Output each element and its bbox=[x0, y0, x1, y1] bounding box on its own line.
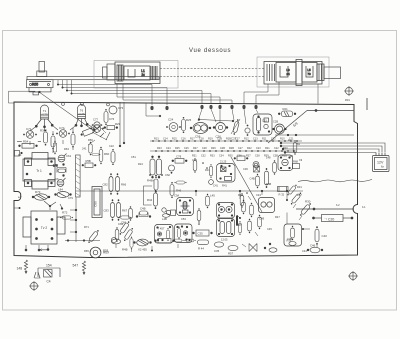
svg-text:C40: C40 bbox=[322, 234, 328, 238]
resistor pills bottom bbox=[197, 192, 248, 225]
top dots F bbox=[149, 173, 170, 177]
transistor T1 bbox=[35, 105, 53, 128]
svg-text:R4B: R4B bbox=[122, 248, 128, 252]
svg-text:R37: R37 bbox=[246, 155, 251, 158]
svg-text:R54: R54 bbox=[23, 140, 29, 144]
antenna bracket outline bbox=[94, 61, 178, 89]
svg-text:R73: R73 bbox=[35, 190, 41, 194]
capacitor C61 bbox=[58, 154, 71, 162]
capacitor C35a bbox=[193, 230, 213, 236]
oscillator coil X2 bbox=[134, 239, 152, 251]
svg-text:b.2: b.2 bbox=[336, 203, 340, 207]
capacitor C77 bbox=[169, 165, 175, 174]
battery connector 12V bbox=[373, 153, 390, 172]
capacitor C30 tall bbox=[150, 156, 155, 178]
svg-text:C4B: C4B bbox=[140, 207, 146, 211]
resistor R67 bbox=[117, 199, 128, 221]
svg-text:R23: R23 bbox=[157, 147, 162, 150]
svg-text:L75: L75 bbox=[53, 164, 58, 168]
svg-text:C36: C36 bbox=[243, 167, 248, 171]
svg-text:R60: R60 bbox=[104, 152, 110, 156]
trimmer C68 bbox=[111, 237, 116, 242]
capacitor C84 bbox=[119, 216, 132, 225]
transformer Tr2 bbox=[23, 211, 65, 244]
capacitor C53b bbox=[171, 210, 176, 216]
svg-text:C35: C35 bbox=[214, 249, 220, 253]
resistor R65 bbox=[115, 227, 119, 241]
svg-text:C3B: C3B bbox=[287, 237, 292, 241]
resistor R73 bbox=[32, 190, 50, 200]
svg-text:Tr 1: Tr 1 bbox=[36, 169, 42, 173]
svg-text:R01: R01 bbox=[345, 98, 350, 102]
bottom edge parts bbox=[103, 237, 296, 256]
resistor R43 bbox=[51, 134, 55, 150]
bracket pins and wires to board bbox=[57, 80, 211, 105]
svg-text:C33: C33 bbox=[192, 158, 197, 162]
wire X bbox=[88, 128, 107, 145]
module 2 bbox=[175, 224, 193, 243]
svg-text:C20: C20 bbox=[328, 217, 334, 221]
resistor R25 bbox=[182, 117, 192, 133]
svg-text:C4B: C4B bbox=[250, 177, 255, 181]
svg-text:C46: C46 bbox=[310, 244, 316, 248]
coil can C2B bbox=[273, 120, 287, 135]
svg-text:C80: C80 bbox=[94, 201, 98, 207]
svg-text:Vue dessous: Vue dessous bbox=[189, 48, 231, 54]
capacitor C78 bbox=[172, 155, 187, 164]
svg-text:C61: C61 bbox=[66, 154, 72, 158]
svg-text:C23: C23 bbox=[262, 120, 267, 123]
wires bottom bbox=[116, 244, 246, 252]
capacitor C56 bbox=[190, 123, 211, 139]
svg-text:Tv 2: Tv 2 bbox=[41, 226, 47, 230]
trimmer C77 bbox=[92, 118, 103, 129]
wire from pot to page-left bbox=[9, 91, 36, 103]
svg-text:R30: R30 bbox=[305, 200, 311, 204]
ferrite rod (dashed) bbox=[160, 69, 264, 77]
svg-text:R 32: R 32 bbox=[279, 193, 285, 197]
capacitor C27 bbox=[231, 119, 240, 141]
trimmer capacitor C7A bbox=[56, 126, 70, 137]
svg-text:C35: C35 bbox=[198, 232, 204, 236]
svg-text:C14: C14 bbox=[163, 137, 168, 140]
svg-text:R24: R24 bbox=[138, 162, 143, 166]
resistor R76 bbox=[87, 229, 100, 244]
svg-text:C45: C45 bbox=[267, 227, 272, 231]
svg-text:R29: R29 bbox=[211, 147, 216, 150]
grommet C58 bbox=[253, 162, 259, 168]
svg-text:C26: C26 bbox=[216, 135, 222, 139]
coil L4B bbox=[162, 208, 171, 221]
svg-text:L45: L45 bbox=[210, 194, 215, 198]
wire junctions bbox=[44, 198, 100, 243]
mounting bracket bar bbox=[27, 77, 159, 80]
svg-text:R2B: R2B bbox=[229, 147, 234, 150]
svg-text:R21: R21 bbox=[265, 147, 270, 150]
svg-text:R21: R21 bbox=[283, 107, 289, 111]
svg-text:C13: C13 bbox=[253, 137, 258, 140]
wire pot long diagonal bbox=[38, 91, 97, 133]
svg-text:C28: C28 bbox=[202, 147, 207, 150]
svg-text:L48: L48 bbox=[266, 156, 271, 160]
svg-text:C7A: C7A bbox=[59, 126, 65, 130]
potentiometer R55 body bbox=[27, 80, 54, 95]
capacitor C31 tall bbox=[157, 156, 162, 178]
resistor R42 bbox=[40, 129, 48, 146]
capacitor C40 bbox=[315, 226, 327, 244]
svg-text:C16: C16 bbox=[181, 137, 186, 140]
svg-text:R34: R34 bbox=[205, 168, 210, 172]
driver module bbox=[259, 198, 275, 213]
svg-text:R42: R42 bbox=[147, 198, 153, 202]
labels right of strip bbox=[288, 139, 303, 162]
resistor R60b bbox=[116, 173, 127, 195]
output module T45 upper bbox=[217, 203, 235, 219]
capacitor C26 bbox=[213, 123, 228, 139]
oscillator module bbox=[253, 114, 272, 135]
wire top-right with junction bbox=[307, 110, 354, 112]
ferrite antenna left end stub bbox=[103, 64, 116, 80]
svg-text:C26: C26 bbox=[184, 147, 189, 150]
slide switch bar bbox=[76, 155, 81, 197]
svg-text:T6: T6 bbox=[80, 109, 84, 113]
svg-text:R38: R38 bbox=[236, 223, 241, 227]
IF transformer MF4 bbox=[174, 194, 194, 216]
capacitor C34 rect bbox=[234, 156, 248, 161]
svg-text:R19: R19 bbox=[208, 137, 213, 140]
resistor R30 bbox=[299, 200, 312, 217]
svg-text:C41: C41 bbox=[213, 184, 218, 188]
svg-text:C4: C4 bbox=[47, 280, 51, 284]
edge stub bbox=[14, 207, 20, 209]
svg-text:C78: C78 bbox=[176, 155, 182, 159]
svg-text:C27: C27 bbox=[238, 147, 243, 150]
svg-text:70: 70 bbox=[307, 72, 311, 76]
svg-text:a.7: a.7 bbox=[18, 195, 22, 199]
resistor R46b bbox=[170, 182, 182, 198]
svg-text:C83: C83 bbox=[104, 209, 110, 213]
svg-text:R33: R33 bbox=[210, 155, 215, 158]
wires G bbox=[196, 191, 288, 236]
pads below top edge bbox=[150, 105, 257, 110]
svg-text:R31: R31 bbox=[192, 155, 197, 158]
svg-text:R41: R41 bbox=[222, 184, 227, 188]
capacitor C37 bbox=[209, 164, 214, 184]
wire S19 diagonal bbox=[268, 111, 307, 144]
capacitor C75 bbox=[53, 164, 66, 177]
resistor R5B bbox=[82, 159, 96, 167]
svg-text:R63: R63 bbox=[64, 147, 69, 151]
svg-text:R15: R15 bbox=[172, 137, 177, 140]
svg-text:AC75: AC75 bbox=[78, 112, 85, 116]
resistor R61 bbox=[129, 206, 133, 220]
svg-text:C2B: C2B bbox=[273, 120, 278, 124]
capacitor C80 bbox=[92, 187, 102, 218]
svg-text:C56: C56 bbox=[195, 135, 201, 139]
coil L84 bbox=[55, 188, 72, 198]
transistor T2 bbox=[75, 105, 88, 127]
resistor R46 bbox=[71, 132, 75, 148]
svg-text:12.05: 12.05 bbox=[221, 238, 228, 242]
svg-text:R49A: R49A bbox=[147, 179, 154, 183]
svg-text:C6: C6 bbox=[55, 177, 59, 181]
capacitor C4B tall bbox=[250, 168, 269, 188]
coil L46 diagonal bbox=[286, 184, 297, 197]
svg-text:C82: C82 bbox=[103, 183, 109, 187]
wire diagonal bbox=[231, 157, 262, 212]
IF transformer MF3 bbox=[213, 161, 235, 188]
resistor R6B bbox=[256, 174, 272, 188]
svg-text:AC75: AC75 bbox=[41, 112, 48, 116]
resistor R68 bbox=[293, 160, 300, 169]
wire bbox=[17, 124, 93, 153]
transformer Tr1 bbox=[23, 153, 55, 190]
wire stub mid bbox=[146, 103, 161, 117]
svg-text:C2B: C2B bbox=[220, 147, 225, 150]
wire pad links bbox=[198, 109, 258, 124]
svg-text:C62: C62 bbox=[165, 173, 170, 177]
crosshair bottom-right bbox=[348, 271, 358, 281]
antenna rod right bbox=[324, 67, 341, 79]
resistor R60a bbox=[104, 149, 115, 165]
tag strip row 2 bbox=[150, 147, 296, 152]
svg-text:R4A: R4A bbox=[238, 193, 243, 197]
resistor R29 bbox=[104, 122, 121, 130]
capacitor C83 bbox=[104, 199, 115, 221]
tag strip row 1 bbox=[150, 137, 302, 141]
capacitor C59 bbox=[91, 153, 101, 155]
capacitor C67 diagonal bbox=[123, 227, 134, 242]
resistor 241 bbox=[82, 142, 92, 156]
svg-text:b.1: b.1 bbox=[362, 205, 366, 209]
IF transformer MF5 bbox=[278, 155, 293, 171]
svg-text:L4B: L4B bbox=[162, 217, 167, 221]
potentiometer R55 shaft bbox=[37, 62, 47, 77]
trimmer C24 bbox=[166, 118, 181, 132]
capacitor C52 bbox=[175, 181, 187, 184]
wire across oscillator bbox=[198, 119, 234, 122]
svg-text:C12: C12 bbox=[271, 137, 276, 140]
svg-text:C79: C79 bbox=[68, 196, 73, 200]
svg-text:R25: R25 bbox=[175, 147, 180, 150]
antenna right bracket outline bbox=[257, 57, 329, 87]
resistor R62 bbox=[53, 141, 56, 155]
svg-text:C76: C76 bbox=[109, 117, 115, 121]
svg-text:C24: C24 bbox=[168, 118, 174, 122]
module H bbox=[284, 224, 302, 246]
svg-text:C43: C43 bbox=[256, 193, 261, 197]
capacitor C60 bbox=[99, 147, 103, 165]
svg-text:C44: C44 bbox=[302, 249, 307, 253]
misc labels bbox=[18, 98, 366, 253]
svg-text:C5A: C5A bbox=[174, 194, 179, 198]
trimmer capacitor C71 bbox=[23, 127, 37, 138]
module T457 bbox=[155, 225, 174, 244]
resistor R21b bbox=[278, 107, 296, 117]
svg-text:R5B: R5B bbox=[86, 159, 91, 163]
svg-text:241: 241 bbox=[82, 147, 87, 151]
svg-text:R27: R27 bbox=[193, 147, 198, 150]
registration crosshair top right bbox=[344, 86, 354, 96]
capacitor C32b bbox=[278, 187, 289, 197]
capacitor C33 bbox=[193, 158, 208, 172]
svg-text:R55: R55 bbox=[32, 83, 38, 87]
svg-text:547: 547 bbox=[73, 264, 79, 268]
svg-text:R 44: R 44 bbox=[198, 247, 204, 251]
coil L45 bbox=[206, 194, 216, 209]
board mounting lug with hole bbox=[90, 247, 101, 258]
svg-text:2x: 2x bbox=[141, 73, 145, 77]
svg-text:R13: R13 bbox=[154, 137, 159, 140]
svg-text:R47: R47 bbox=[275, 215, 280, 219]
screw 547 bbox=[82, 261, 85, 275]
capacitor X square bbox=[254, 166, 260, 172]
svg-text:L47: L47 bbox=[297, 193, 302, 197]
trimmer C72 bbox=[90, 125, 104, 133]
screw 148 bbox=[24, 260, 27, 274]
svg-text:154: 154 bbox=[46, 264, 52, 268]
svg-text:C34: C34 bbox=[219, 155, 224, 158]
svg-text:R25: R25 bbox=[186, 118, 192, 122]
svg-text:C38: C38 bbox=[255, 155, 260, 158]
svg-text:R31: R31 bbox=[297, 185, 302, 189]
output module T45 lower bbox=[217, 216, 239, 242]
svg-text:C77: C77 bbox=[93, 118, 98, 122]
svg-text:C24: C24 bbox=[166, 147, 171, 150]
svg-text:C22: C22 bbox=[274, 147, 279, 150]
antenna coil L3/L5 housing bbox=[264, 60, 324, 86]
svg-text:R66: R66 bbox=[121, 183, 127, 187]
svg-text:148: 148 bbox=[17, 267, 23, 271]
svg-text:T1: T1 bbox=[43, 109, 47, 113]
resistor R48 bbox=[136, 207, 151, 218]
svg-text:R67: R67 bbox=[122, 209, 128, 213]
svg-text:R12: R12 bbox=[244, 137, 249, 140]
svg-text:R56: R56 bbox=[88, 138, 93, 142]
PCB outline bbox=[14, 102, 358, 258]
svg-text:24: 24 bbox=[286, 72, 290, 76]
svg-text:C53: C53 bbox=[181, 217, 186, 221]
capacitor C46 bbox=[307, 244, 323, 253]
capacitor C66 bbox=[118, 220, 131, 235]
wire mid right bbox=[275, 134, 354, 136]
battery wires bbox=[280, 142, 385, 153]
svg-text:L84: L84 bbox=[58, 188, 63, 192]
wavy antenna wire bbox=[298, 179, 372, 181]
coil L48b bbox=[266, 156, 276, 175]
svg-text:T 457: T 457 bbox=[158, 227, 165, 231]
svg-text:R57: R57 bbox=[228, 252, 234, 256]
svg-text:C73: C73 bbox=[118, 106, 124, 110]
svg-text:R6B: R6B bbox=[266, 182, 271, 186]
capacitor C55 tilted bbox=[80, 127, 96, 138]
svg-text:R22: R22 bbox=[247, 147, 252, 150]
fiducial stub right bbox=[366, 98, 368, 110]
svg-text:R46: R46 bbox=[176, 189, 182, 193]
svg-text:C32: C32 bbox=[201, 155, 206, 158]
svg-text:R65: R65 bbox=[84, 249, 89, 253]
capacitor C54 assembly bbox=[34, 268, 60, 278]
svg-text:C3B: C3B bbox=[273, 155, 278, 158]
resistor R42b + loop bbox=[144, 186, 158, 209]
resistor R4 edge bbox=[15, 151, 23, 157]
wire verticals bbox=[100, 102, 125, 147]
svg-text:R11: R11 bbox=[262, 137, 267, 140]
resistor R54 bbox=[19, 140, 38, 149]
trimmer C28 bbox=[245, 125, 250, 136]
board holes top edge bbox=[62, 103, 110, 106]
svg-text:R72: R72 bbox=[62, 211, 68, 215]
svg-text:R342: R342 bbox=[40, 129, 47, 133]
resistor field G pills bbox=[238, 200, 264, 235]
svg-text:C27: C27 bbox=[231, 137, 237, 141]
tag strip row 3 labels bbox=[192, 155, 287, 158]
svg-text:C49: C49 bbox=[259, 217, 265, 221]
svg-text:R71: R71 bbox=[84, 225, 89, 229]
resistor R49 bbox=[147, 177, 158, 193]
wires antenna coils to board bbox=[117, 82, 318, 104]
capacitor C64 bbox=[55, 177, 66, 186]
wire to C20 row bbox=[296, 208, 354, 210]
svg-text:⊣: ⊣ bbox=[324, 217, 327, 221]
svg-text:21.25: 21.25 bbox=[220, 161, 227, 164]
capacitor C20 bbox=[313, 215, 354, 222]
svg-text:R35: R35 bbox=[228, 155, 233, 158]
crosshair bottom-left bbox=[29, 281, 39, 291]
svg-text:C51: C51 bbox=[131, 155, 136, 159]
resistor R26 bbox=[293, 140, 297, 154]
svg-text:R10: R10 bbox=[280, 137, 285, 140]
resistor R72 bbox=[60, 211, 73, 220]
wire pads bbox=[25, 245, 49, 251]
capacitor C73 bbox=[109, 106, 124, 114]
svg-text:C23: C23 bbox=[256, 147, 261, 150]
svg-text:X2 455: X2 455 bbox=[138, 248, 147, 252]
svg-text:C22: C22 bbox=[109, 144, 114, 148]
antenna coil L1 housing bbox=[115, 62, 160, 84]
svg-text:R59: R59 bbox=[103, 249, 109, 253]
coil L47 bbox=[290, 191, 303, 205]
capacitor C76 bbox=[104, 109, 115, 125]
svg-text:C66: C66 bbox=[118, 222, 124, 226]
svg-text:R20: R20 bbox=[283, 147, 288, 150]
svg-text:R68: R68 bbox=[293, 160, 298, 164]
capacitor C82 bbox=[103, 173, 114, 195]
wires H bbox=[287, 204, 317, 247]
long wire bus bbox=[76, 190, 303, 192]
